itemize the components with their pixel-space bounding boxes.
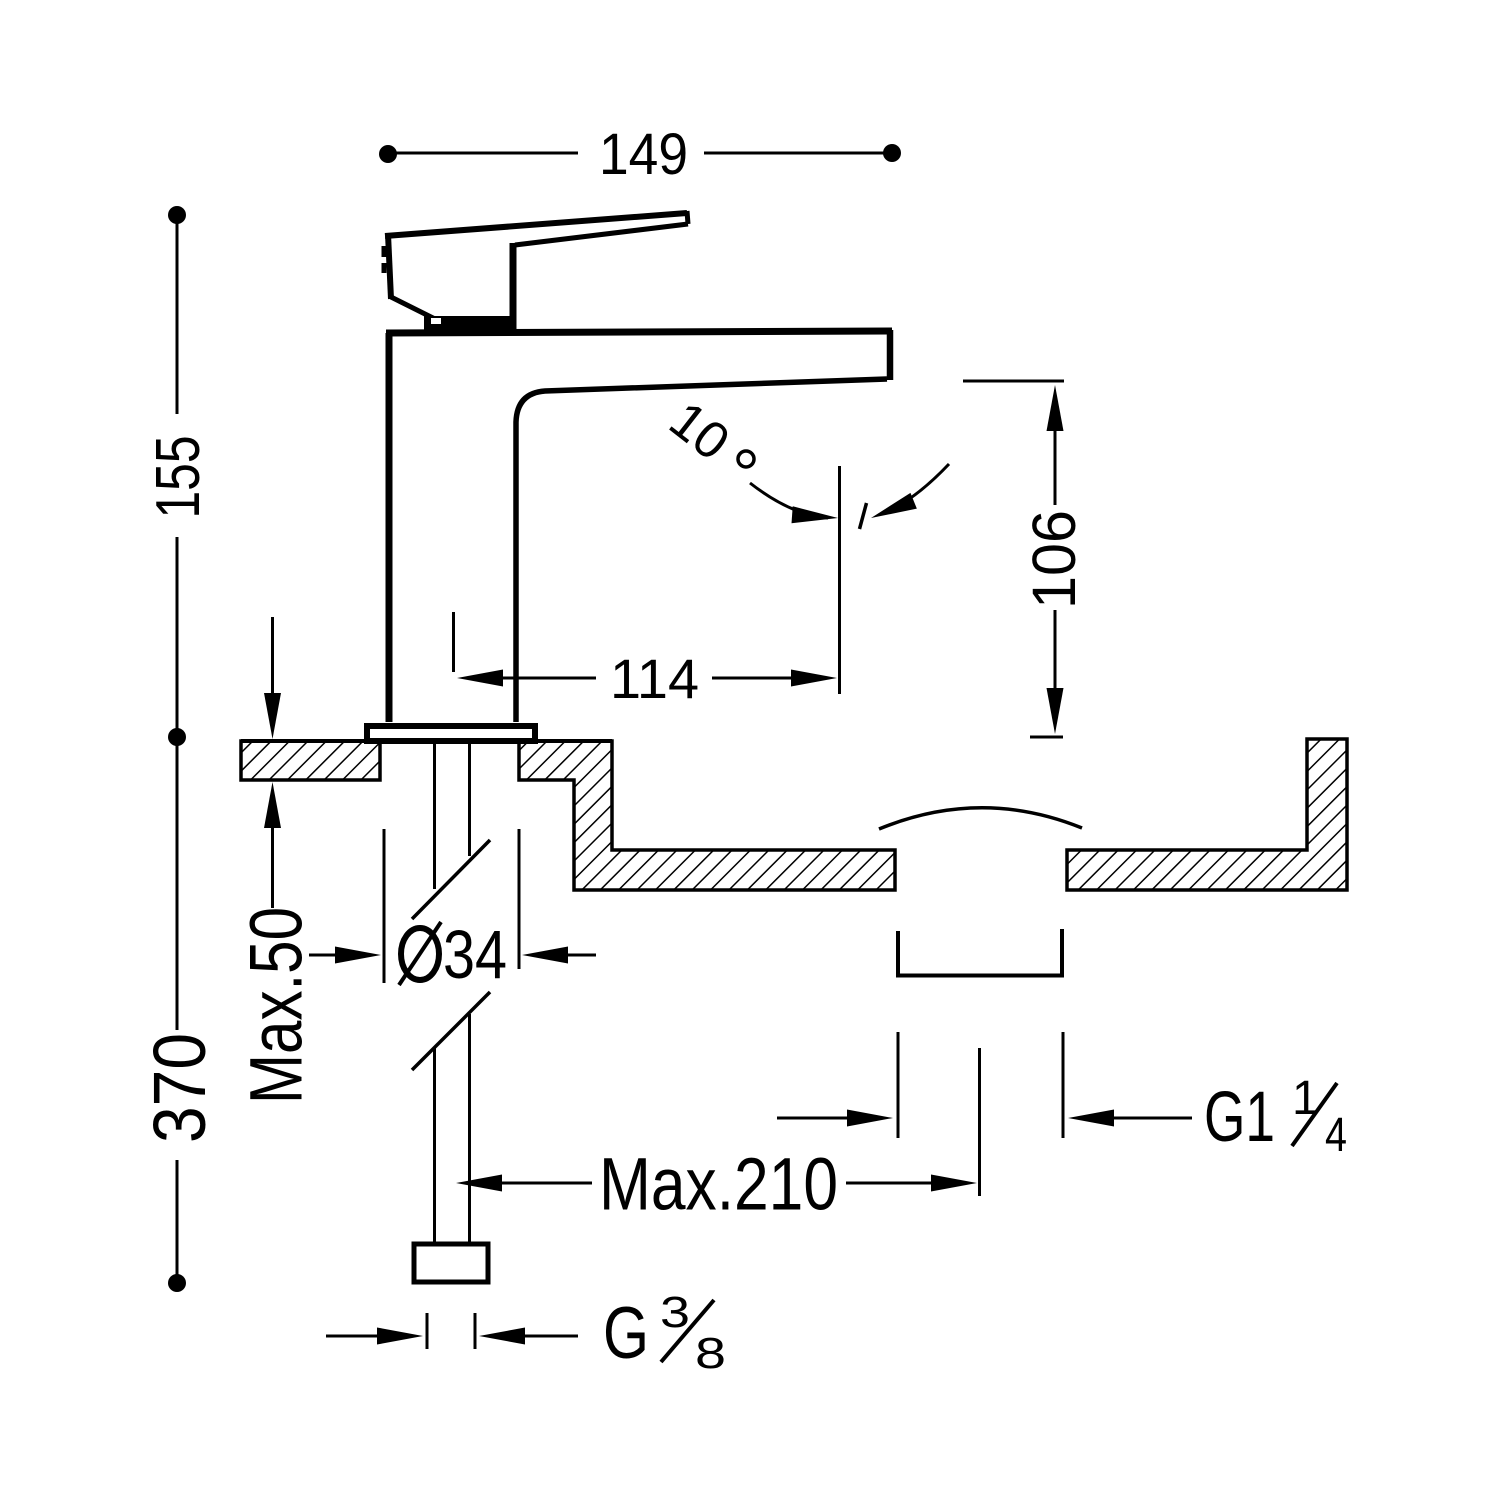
dimension diameter 34 text (399, 916, 507, 993)
dimension 106 bottom tick (1030, 736, 1063, 739)
faucet lever left edge bumps (382, 246, 387, 273)
svg-text:G: G (603, 1293, 649, 1374)
countertop left slab (hatched) (241, 741, 380, 780)
svg-text:3: 3 (660, 1288, 690, 1337)
faucet lever lower-left outer diagonal (391, 297, 445, 324)
dimension 155 top dot (168, 206, 186, 224)
svg-text:Max.50: Max.50 (235, 907, 318, 1104)
dimension Max.210 left arrow (499, 1182, 592, 1185)
supply pipe left lower segment (433, 1048, 436, 1244)
faucet spout right edge (887, 330, 894, 380)
svg-text:Max.210: Max.210 (599, 1143, 838, 1226)
dimension diameter 34 right extension line (518, 829, 521, 969)
spout axis tilted tick (860, 503, 867, 529)
angle arc right with arrow (882, 464, 949, 514)
angle arc left with arrow (750, 483, 828, 518)
dimension 106 top extension line (963, 380, 1064, 383)
dimension Max.50 lower line with up arrow (271, 820, 274, 908)
dimension Max.50 upper line with down arrow (271, 617, 274, 700)
svg-text:G1: G1 (1204, 1077, 1275, 1157)
svg-text:8: 8 (695, 1329, 726, 1378)
svg-text:34: 34 (443, 916, 507, 993)
dimension 114 left extension tick (452, 612, 455, 672)
countertop right section with basin step (hatched) (519, 741, 895, 890)
dimension 149 line (391, 152, 889, 155)
supply pipe left upper segment (433, 744, 436, 889)
faucet lever left edge (388, 234, 391, 299)
faucet spout underside edge (516, 379, 887, 722)
countertop surface line (241, 739, 612, 743)
dimension G 3/8 right arrow (522, 1335, 578, 1338)
dimension 370 line (176, 740, 179, 1280)
dimension diameter 34 left extension line (383, 829, 386, 983)
dimension 149 left dot (379, 145, 397, 163)
dimension 370 mid dot (168, 728, 186, 746)
dimension diameter 34 left arrow (309, 954, 340, 957)
basin right wall section (hatched) (1067, 739, 1347, 890)
dimension 114 line with arrows (500, 677, 794, 680)
supply pipe right upper segment (468, 744, 471, 856)
dimension G1 1/4 text (1204, 1072, 1347, 1162)
faucet mounting flange (367, 726, 535, 741)
dimension 155 line (176, 218, 179, 734)
faucet lever tip edge (687, 211, 688, 224)
supply pipe end fitting (414, 1244, 488, 1282)
dimension G1 1/4 right arrow (1111, 1117, 1192, 1120)
basin bottom dome arc (879, 808, 1082, 829)
faucet body left edge (386, 333, 393, 722)
svg-text:106: 106 (1020, 510, 1089, 609)
dimension 370 bottom dot (168, 1274, 186, 1292)
dimension G 3/8 left arrow (326, 1335, 380, 1338)
faucet lever lower-left inner diagonal (399, 302, 441, 321)
svg-text:370: 370 (138, 1033, 221, 1143)
faucet lever blade bottom edge (515, 224, 688, 245)
drain left extension line (897, 1032, 900, 1138)
svg-text:4: 4 (1325, 1109, 1347, 1162)
dimension G 3/8 right extension tick (474, 1313, 477, 1349)
dimension 106 line with arrows (1054, 427, 1057, 692)
pipe break slash lower (412, 992, 490, 1070)
dimension G 3/8 text (603, 1288, 726, 1378)
faucet lever front vertical edge (510, 243, 517, 330)
supply pipe right lower segment (468, 1014, 471, 1244)
dimension Max.210 right arrow (846, 1182, 933, 1185)
faucet spout top edge (386, 331, 892, 333)
dimension 149 right dot (883, 144, 901, 162)
faucet lever base pad (424, 316, 514, 331)
pipe break slash upper (412, 840, 490, 919)
spout axis vertical reference line (838, 466, 841, 694)
svg-text:114: 114 (610, 648, 699, 710)
faucet lever top edge (385, 213, 687, 236)
drain tailpiece U profile (898, 929, 1062, 976)
svg-text:149: 149 (599, 122, 688, 187)
dimension G 3/8 left extension tick (426, 1313, 429, 1349)
drain center extension line (978, 1048, 981, 1196)
svg-text:155: 155 (144, 436, 213, 519)
drain right extension line (1062, 1032, 1065, 1138)
dimension diameter 34 right arrow (567, 954, 596, 957)
dimension G1 1/4 left arrow (777, 1117, 850, 1120)
